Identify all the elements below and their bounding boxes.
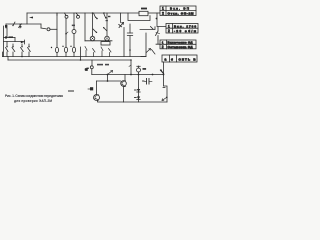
svg-text:1: 1 — [168, 25, 170, 29]
wire v x130 with capacitor C1 — [129, 24, 131, 50]
component X1 — [19, 24, 21, 28]
wire Q2 collector up — [124, 75, 126, 81]
relay arrow symbol — [146, 49, 150, 53]
contact group under bus x93 — [93, 49, 96, 57]
diode D3 at left — [88, 88, 93, 90]
node tick x66 mid — [65, 33, 67, 35]
svg-text:а: а — [165, 57, 167, 61]
node dot x130 bus — [129, 49, 131, 51]
svg-text:1: 1 — [162, 7, 164, 11]
contact group under bus x85 — [85, 47, 87, 57]
wire v x57 rail to bus — [56, 13, 58, 57]
svg-text:зГ: зГ — [85, 68, 89, 72]
svg-text:2: 2 — [162, 45, 164, 49]
wire box B feed down — [157, 27, 159, 31]
meter P1 — [72, 30, 76, 34]
wire top rail left segment — [27, 12, 139, 14]
svg-text:Остановка ЭД: Остановка ЭД — [168, 45, 194, 49]
switch S1 contact circles on rail — [65, 15, 68, 18]
wire v x120 rail down — [120, 13, 122, 23]
contact group under bus x101 — [101, 47, 103, 57]
svg-text:2: 2 — [168, 29, 170, 33]
left border wire — [3, 26, 5, 57]
diode D5 — [138, 96, 140, 102]
svg-text:Вкл. ЭП: Вкл. ЭП — [170, 7, 189, 11]
wire v x107 node to base line — [107, 75, 109, 82]
svg-text:для проверки ЭАП-2М: для проверки ЭАП-2М — [14, 99, 52, 103]
transistor Q2 — [121, 81, 127, 87]
node dot x156 — [156, 18, 158, 20]
bus joining wire — [3, 52, 9, 60]
label R1 value — [141, 8, 147, 10]
fuse FU3 — [72, 47, 75, 52]
wire bypass loop under resistor — [128, 13, 150, 21]
diode D2 — [24, 40, 26, 44]
bus wire 1 — [3, 56, 147, 58]
svg-text:Включение ЭД: Включение ЭД — [168, 41, 194, 45]
transistor Q1 — [94, 95, 100, 101]
wire v x15 — [14, 38, 16, 42]
label M1 — [9, 36, 14, 38]
wire top rail right segment — [148, 12, 160, 14]
wire v x96 down to transistor — [96, 81, 98, 95]
contact row: fuse F4 — [28, 44, 31, 57]
wire v x107 rail to lamp — [106, 13, 108, 36]
wire v x92 rail to lamp — [92, 13, 94, 36]
diode D1 — [5, 24, 7, 28]
component box under lamps — [101, 42, 110, 45]
wire bottom rail right — [124, 101, 168, 103]
label under bus 1 — [97, 64, 103, 66]
wire Q2 emitter down — [123, 87, 125, 102]
contact K4 on box D drop — [161, 70, 164, 74]
wire top rail corner down — [26, 13, 28, 24]
contact K7 on x92 — [93, 29, 97, 33]
svg-text:Рис. 1. Схема соединения перед: Рис. 1. Схема соединения передатчика — [5, 94, 63, 98]
terminal box D — [162, 55, 197, 62]
node tick x71 — [70, 46, 71, 47]
svg-text:Откл. ЭП-2М: Откл. ЭП-2М — [168, 12, 194, 16]
arrow marker on top-left wire — [29, 17, 33, 19]
wire v x41 — [40, 24, 42, 28]
node tick x63 — [62, 46, 63, 47]
svg-text:СЕТЬ В: СЕТЬ В — [179, 57, 197, 61]
capacitor C1 plates — [127, 33, 132, 36]
wire transistor to bottom — [98, 100, 124, 102]
contact pair K9 — [119, 23, 124, 28]
wire into box C — [156, 40, 160, 44]
wiper arrow to node — [108, 71, 113, 75]
contact K11 — [152, 50, 156, 55]
label T3 — [143, 68, 147, 70]
wire h y81 base line — [97, 80, 121, 82]
node dots contact tops — [6, 46, 7, 47]
switch S1 blade — [65, 13, 79, 16]
terminal box B — [166, 24, 198, 34]
wire lamp row horizontal — [85, 40, 112, 42]
contact K2 under rail — [104, 13, 106, 18]
contact K8 on x107 — [104, 28, 107, 31]
label b — [106, 20, 108, 21]
contact group under bus x109 — [109, 49, 112, 57]
node tick right — [163, 87, 165, 89]
wire v x66 — [65, 18, 67, 56]
wire v x85 rail down — [84, 13, 86, 41]
lamp HL1 — [90, 36, 95, 41]
label under bus 2 — [105, 64, 109, 66]
svg-text:-20 об/м: -20 об/м — [174, 29, 197, 33]
wire v x7 — [6, 28, 8, 38]
lamp HL2 — [105, 36, 110, 41]
transistor Q3 arrow — [162, 98, 167, 101]
contact row: fuse F2 — [12, 44, 15, 57]
wire v x131 bus2 to lower line — [130, 60, 132, 75]
svg-text:б: б — [171, 57, 173, 61]
label a — [108, 16, 110, 17]
wire h y74.5 lower main — [92, 74, 164, 76]
node rail dot x92 — [92, 12, 94, 14]
label D4 — [135, 89, 137, 91]
label D5 — [135, 97, 137, 99]
terminal box A top right — [160, 6, 196, 16]
contact K1 under rail — [94, 13, 98, 19]
contact K10 — [151, 27, 154, 30]
node dot bus x22 — [21, 56, 23, 58]
terminal box C — [160, 40, 196, 49]
wire hook x80 to bus2 — [80, 47, 82, 60]
minus label — [69, 90, 74, 92]
svg-text:Вкл. 1700: Вкл. 1700 — [174, 24, 196, 28]
contact row: fuse F1 — [6, 42, 9, 57]
node dot x152 — [152, 74, 154, 76]
wire h y29.5 relay feed — [140, 27, 155, 30]
wire v x146 — [141, 33, 146, 57]
svg-text:2: 2 — [162, 12, 164, 16]
lamp HL3 — [138, 66, 140, 68]
wire right corner to v x167 — [164, 86, 168, 102]
contact K6 with lamp — [41, 27, 46, 30]
fuse FU2 — [64, 47, 67, 52]
capacitor C2 — [147, 79, 150, 85]
wire v x124 to bus — [123, 28, 125, 57]
contact K3 on right column — [156, 31, 159, 40]
contact row: fuse F3 — [21, 44, 24, 57]
wire right column drop x157 — [157, 13, 166, 27]
wire HL3 down through — [138, 72, 140, 88]
node dot x163 — [163, 74, 165, 76]
fuse FU1 — [55, 47, 58, 52]
node dot x107 — [107, 74, 109, 76]
wire box D down to lower circuit — [163, 62, 165, 86]
bus wire 2 — [8, 59, 131, 61]
label C2 — [143, 80, 145, 82]
diode D4 — [138, 88, 140, 96]
resistor R1 — [139, 11, 148, 15]
wire lower-left horizontal — [4, 41, 25, 43]
node rail junction x57 — [56, 13, 58, 16]
contact K12 below bus — [91, 60, 93, 66]
wire mid-left horizontal — [4, 37, 16, 39]
left cluster top wire — [6, 23, 41, 25]
wire v x74 — [73, 13, 75, 57]
label P1 — [72, 25, 75, 27]
node M dot — [5, 36, 7, 38]
contact K5 — [13, 22, 15, 26]
svg-text:1: 1 — [162, 41, 164, 45]
node tick x51 — [51, 47, 52, 48]
node rail dot x104 — [103, 12, 105, 14]
